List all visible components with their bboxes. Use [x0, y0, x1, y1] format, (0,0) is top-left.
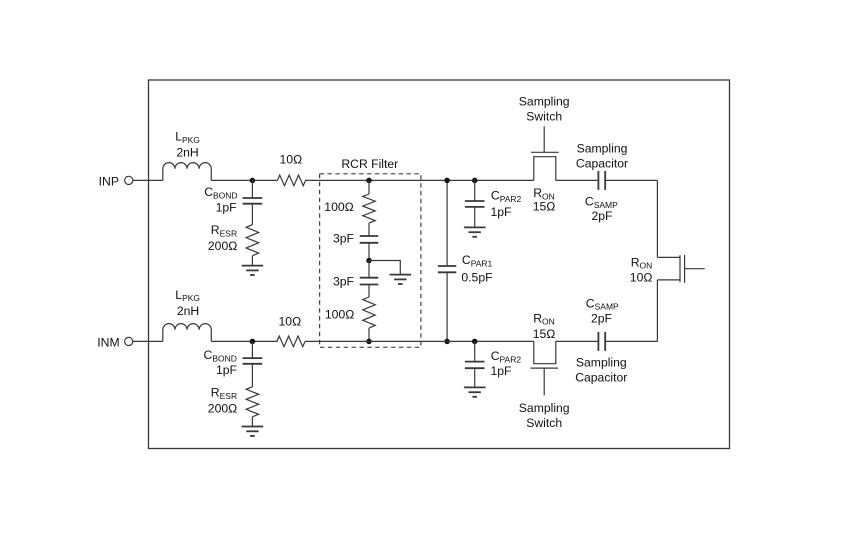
- svg-text:CPAR1: CPAR1: [462, 253, 493, 268]
- node C_PAR1 bottom junction: [444, 339, 450, 345]
- wire R_ESR to ground (bottom): [251, 417, 253, 427]
- node INM terminal: [125, 337, 133, 345]
- wire right side down to output switch: [656, 180, 658, 257]
- wire 10ohm to sampling switch (top): [306, 179, 534, 181]
- node junction C_BOND (top): [250, 178, 256, 184]
- node filter bottom junction: [366, 339, 372, 345]
- resistor 10ohm (top): [277, 175, 305, 186]
- wire C_BOND to R_ESR (bottom): [251, 364, 253, 387]
- svg-text:1pF: 1pF: [491, 364, 512, 378]
- svg-text:2nH: 2nH: [176, 145, 198, 159]
- svg-text:CSAMP: CSAMP: [586, 296, 619, 311]
- svg-text:CSAMP: CSAMP: [585, 194, 618, 209]
- wire 3pF to 100ohm (bottom): [368, 285, 370, 298]
- resistor 100ohm (bottom of filter): [363, 297, 375, 328]
- svg-text:15Ω: 15Ω: [533, 200, 556, 214]
- wire C_BOND to R_ESR (top): [251, 204, 253, 225]
- svg-text:10Ω: 10Ω: [630, 270, 653, 284]
- wire INP terminal to L_PKG: [133, 179, 163, 181]
- outer boundary box: [149, 80, 730, 449]
- capacitor C_SAMP (top): [597, 171, 599, 190]
- svg-text:2pF: 2pF: [591, 312, 612, 326]
- svg-text:RON: RON: [631, 255, 653, 270]
- RCR filter dashed box: [320, 174, 421, 347]
- capacitor C_PAR1: [438, 265, 456, 267]
- svg-text:CPAR2: CPAR2: [491, 189, 522, 204]
- node INP terminal: [125, 176, 133, 184]
- ground below C_PAR2 (bottom): [464, 386, 486, 388]
- wire filter top lead: [368, 180, 370, 194]
- capacitor C_BOND (bottom): [243, 357, 263, 359]
- wire 10ohm to sampling switch (bottom): [305, 340, 534, 342]
- svg-text:RON: RON: [533, 311, 555, 326]
- wire R_ESR to ground (top): [251, 256, 253, 266]
- wire 3pF to middle node: [368, 243, 370, 261]
- svg-text:RCR Filter: RCR Filter: [341, 157, 398, 171]
- wire middle node to filter ground: [369, 261, 400, 275]
- svg-text:Sampling: Sampling: [519, 401, 570, 415]
- svg-text:Sampling: Sampling: [519, 94, 570, 108]
- capacitor C_BOND (top): [243, 197, 263, 199]
- wire C_SAMP to right corner (bottom): [605, 340, 657, 342]
- svg-text:0.5pF: 0.5pF: [461, 270, 492, 284]
- svg-text:LPKG: LPKG: [175, 288, 200, 303]
- wire INM terminal to L_PKG: [133, 340, 163, 342]
- svg-text:Switch: Switch: [526, 110, 562, 124]
- wire L_PKG to 10ohm resistor (top): [211, 179, 277, 181]
- capacitor C_SAMP (bottom): [597, 332, 599, 351]
- wire top rail to C_PAR1: [446, 180, 448, 266]
- node junction C_BOND (bottom): [250, 339, 256, 345]
- node C_PAR2 junction (bottom): [472, 339, 478, 345]
- transistor sampling switch (top): [534, 157, 556, 181]
- node filter middle junction: [366, 258, 372, 264]
- svg-text:100Ω: 100Ω: [325, 307, 355, 321]
- wire switch to C_SAMP (bottom): [556, 340, 599, 342]
- wire output switch down to bottom rail: [656, 280, 658, 342]
- svg-text:Sampling: Sampling: [576, 356, 627, 370]
- svg-text:INM: INM: [97, 335, 119, 349]
- inductor L_PKG (bottom): [163, 324, 211, 342]
- svg-text:INP: INP: [99, 174, 119, 188]
- svg-text:CPAR2: CPAR2: [491, 349, 522, 364]
- ground of RCR filter: [390, 274, 412, 276]
- svg-text:200Ω: 200Ω: [208, 401, 238, 415]
- resistor 100ohm (top of filter): [363, 194, 375, 223]
- wire node to C_BOND (top): [251, 180, 253, 198]
- svg-text:CBOND: CBOND: [204, 348, 237, 363]
- ground below C_PAR2 (top): [464, 226, 486, 228]
- svg-text:10Ω: 10Ω: [280, 152, 303, 166]
- svg-text:Capacitor: Capacitor: [576, 156, 628, 170]
- wire to C_PAR2 (top): [474, 180, 476, 201]
- svg-text:CBOND: CBOND: [204, 185, 237, 200]
- wire C_PAR2 to ground (bottom): [474, 368, 476, 387]
- capacitor 3pF (top): [360, 235, 379, 237]
- svg-text:100Ω: 100Ω: [324, 200, 354, 214]
- wire C_PAR1 to bottom rail: [446, 272, 448, 341]
- wire L_PKG to 10ohm resistor (bottom): [211, 340, 277, 342]
- wire node to C_BOND (bottom): [251, 341, 253, 358]
- svg-text:10Ω: 10Ω: [279, 314, 302, 328]
- node C_PAR2 junction (top): [472, 178, 478, 184]
- svg-text:Capacitor: Capacitor: [575, 370, 627, 384]
- node C_PAR1 top junction: [444, 178, 450, 184]
- svg-text:200Ω: 200Ω: [208, 239, 238, 253]
- node filter top junction: [366, 178, 372, 184]
- svg-text:1pF: 1pF: [491, 205, 512, 219]
- capacitor C_PAR2 (top): [465, 200, 485, 202]
- wire 100ohm to 3pF (top): [368, 223, 370, 236]
- svg-text:3pF: 3pF: [333, 232, 354, 246]
- svg-text:2pF: 2pF: [591, 209, 612, 223]
- ground below R_ESR (bottom): [242, 426, 264, 428]
- resistor R_ESR (top): [246, 225, 258, 256]
- ground below R_ESR (top): [242, 265, 264, 267]
- transistor R_ON 10ohm output switch: [657, 255, 680, 282]
- svg-text:RESR: RESR: [211, 386, 237, 401]
- inductor L_PKG (top): [163, 163, 211, 181]
- svg-text:2nH: 2nH: [177, 304, 199, 318]
- svg-text:LPKG: LPKG: [175, 129, 200, 144]
- wire C_SAMP to right corner (top): [605, 179, 657, 181]
- svg-text:1pF: 1pF: [216, 200, 237, 214]
- svg-text:RESR: RESR: [211, 223, 237, 238]
- svg-text:3pF: 3pF: [333, 274, 354, 288]
- capacitor 3pF (bottom): [360, 277, 379, 279]
- svg-text:1pF: 1pF: [216, 363, 237, 377]
- transistor sampling switch (bottom): [534, 341, 556, 363]
- resistor R_ESR (bottom): [246, 387, 258, 417]
- svg-text:Sampling: Sampling: [577, 142, 628, 156]
- wire 100ohm to bottom rail: [368, 328, 370, 341]
- wire C_PAR2 to ground (top): [474, 207, 476, 228]
- svg-text:15Ω: 15Ω: [533, 327, 556, 341]
- resistor 10ohm (bottom): [277, 336, 305, 347]
- wire to C_PAR2 (bottom): [474, 341, 476, 361]
- capacitor C_PAR2 (bottom): [465, 361, 485, 363]
- wire switch to C_SAMP (top): [556, 179, 599, 181]
- svg-text:Switch: Switch: [526, 416, 562, 430]
- wire middle node to 3pF (bottom): [368, 261, 370, 278]
